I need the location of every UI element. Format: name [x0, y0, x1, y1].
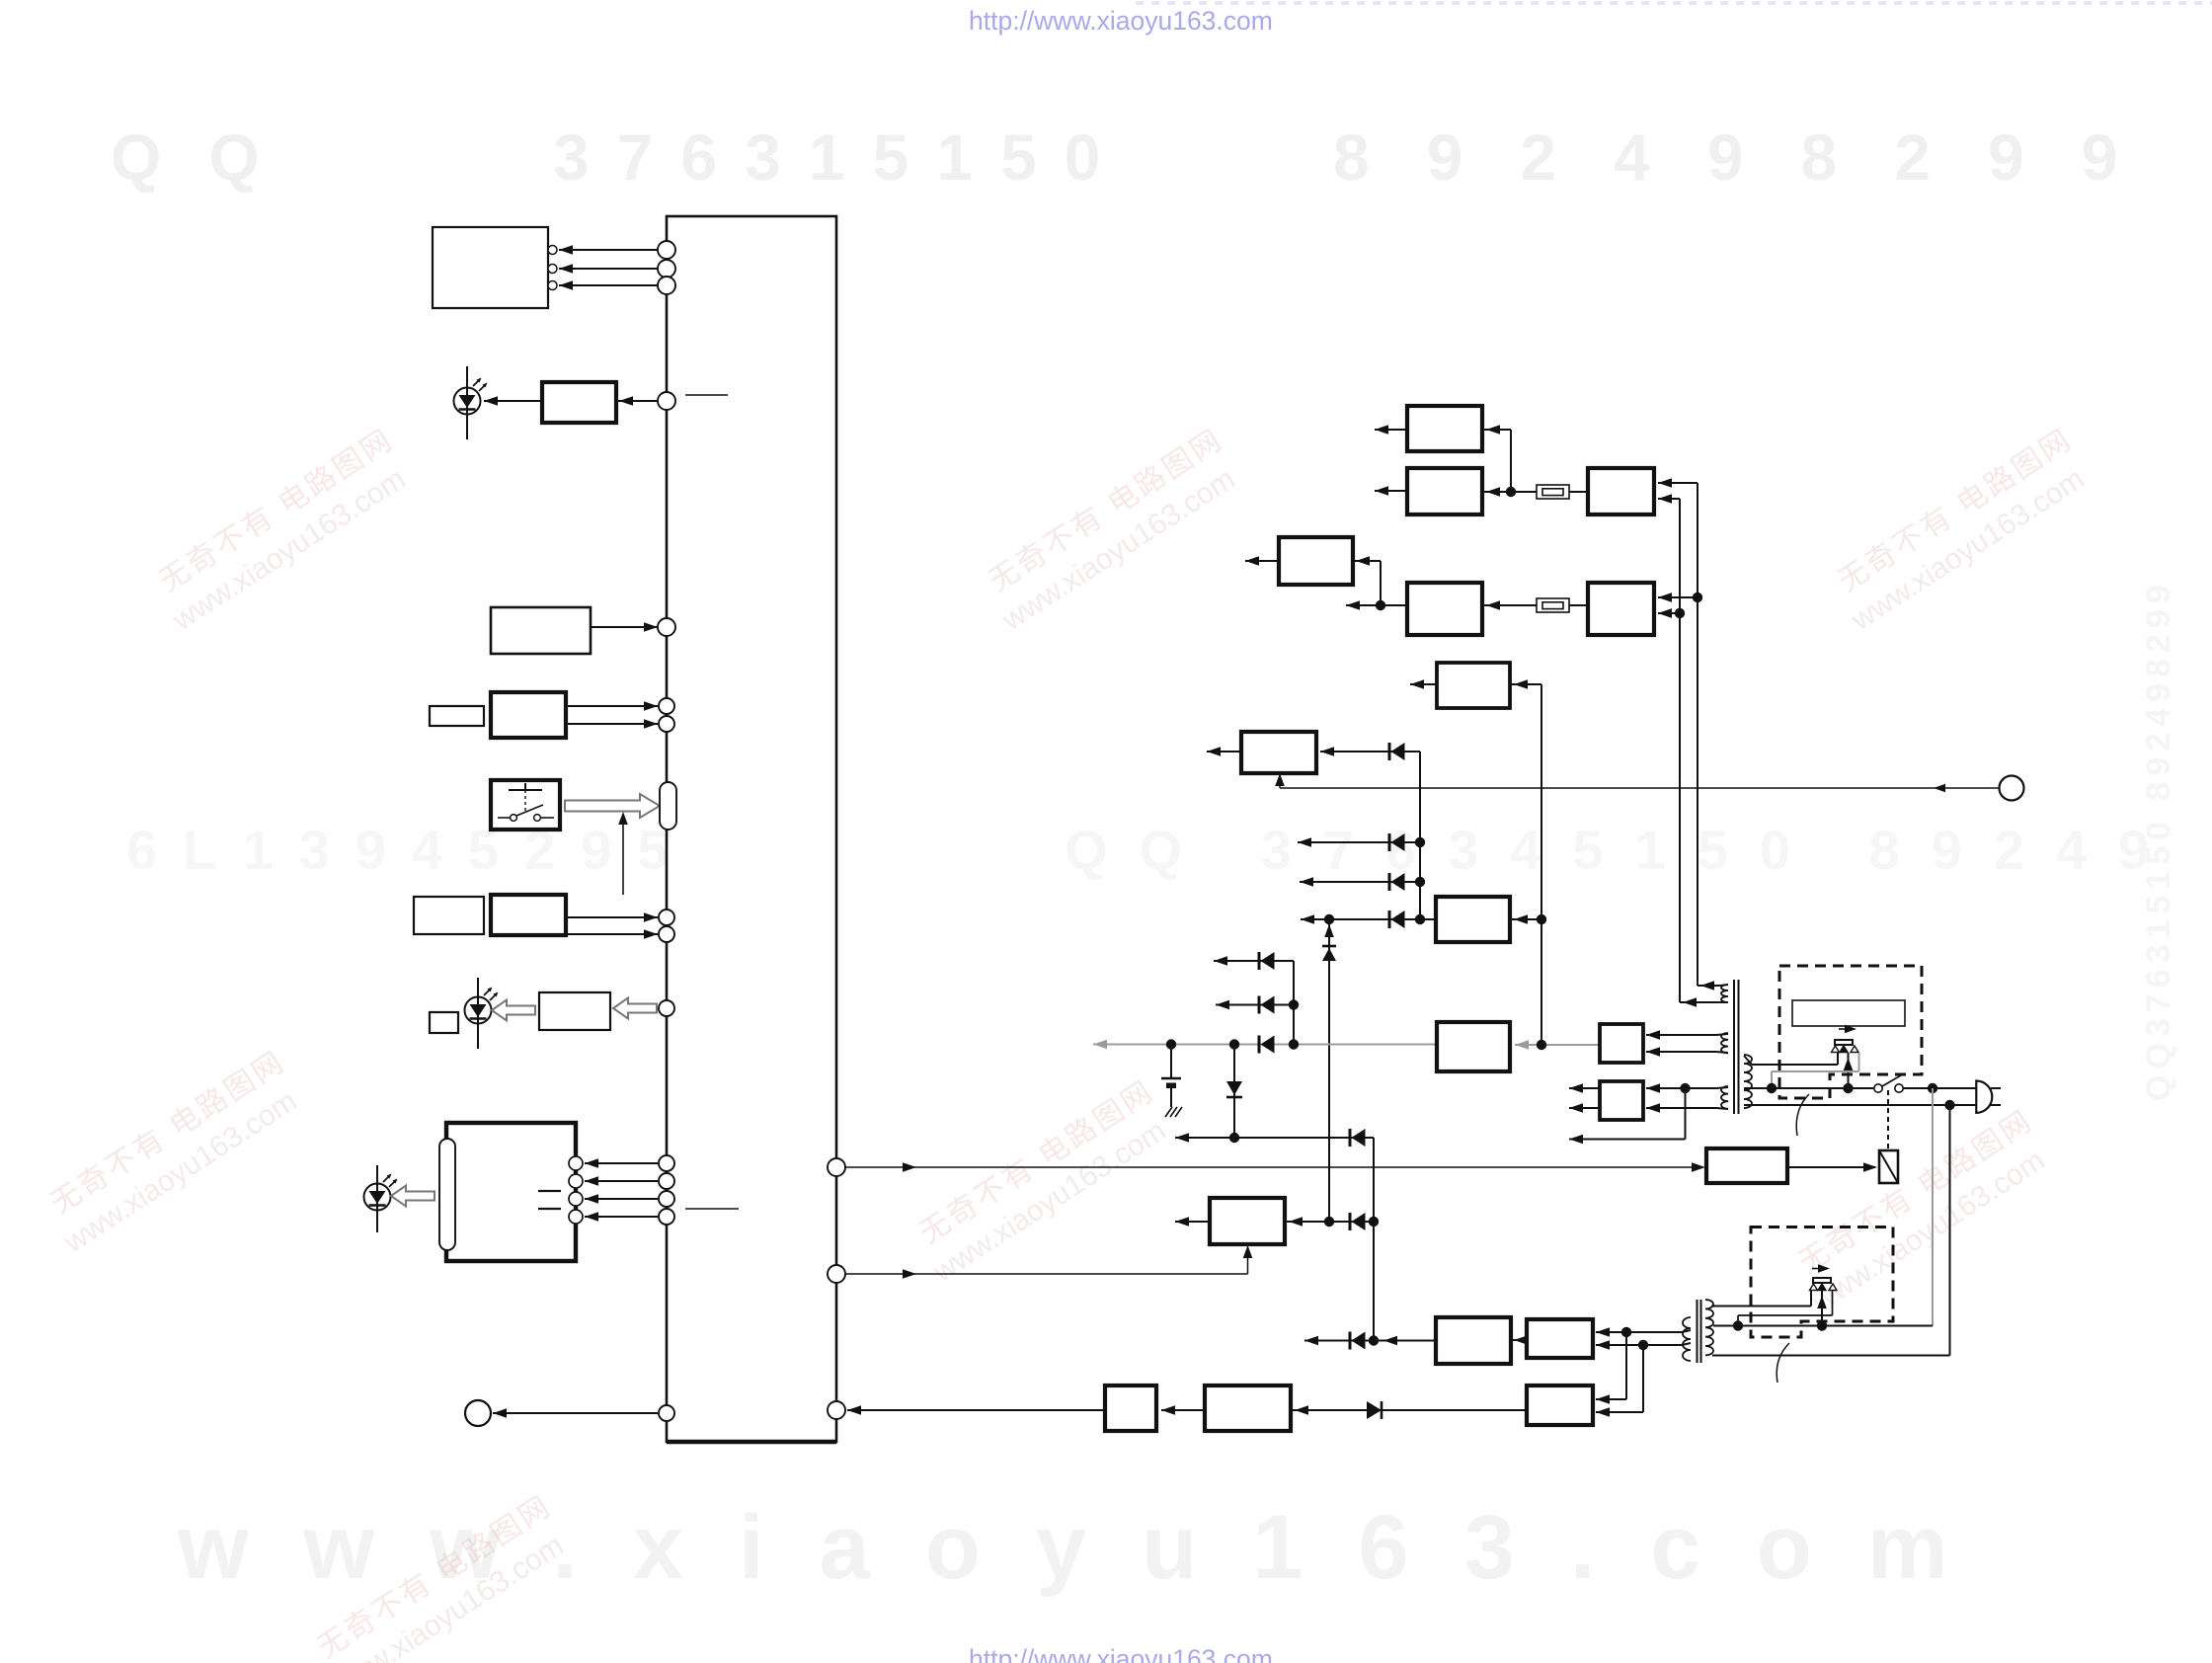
thermal protector C — [1810, 1278, 1838, 1291]
svg-text:892498299: 892498299 — [1333, 120, 2174, 194]
wire R18 to relay — [1787, 1166, 1875, 1168]
gray drop wire — [1932, 1088, 1934, 1326]
wire junction to R4 — [1381, 604, 1407, 606]
box F2 small — [414, 897, 484, 934]
IC right pin C circle — [828, 1401, 845, 1419]
wire B3 to B2 — [1161, 1409, 1205, 1411]
gray bus line — [1093, 1044, 1437, 1046]
power key switch box E — [491, 780, 560, 830]
regulator R4 — [1407, 583, 1482, 635]
wire IC to J1 — [493, 1412, 658, 1414]
wires IC to G — [585, 1162, 658, 1164]
capacitor C1 to ground — [1170, 1045, 1172, 1079]
regulator R19 — [1527, 1386, 1593, 1425]
feedback riser into R9 — [1279, 778, 1281, 788]
box F4 small — [430, 1012, 458, 1033]
AC plug P1 — [1976, 1081, 1992, 1113]
vertical wire V3 — [1540, 684, 1542, 1045]
driver box B1 — [542, 382, 616, 423]
protector A left leg — [1837, 1053, 1839, 1065]
LED D2 — [477, 978, 479, 1049]
regulator R14 — [1527, 1319, 1593, 1358]
rectifier R17 — [1600, 1081, 1643, 1120]
rectifier R3 — [1588, 468, 1654, 515]
diode D12 row — [1300, 881, 1420, 883]
AC line lower — [1747, 1104, 1976, 1106]
dashed unit A outline — [1779, 966, 1922, 1098]
small arrow above protector A — [1839, 1028, 1854, 1030]
LED D3 — [376, 1165, 378, 1232]
junction dot — [1376, 600, 1385, 610]
V1 to T1 coil A top — [1698, 985, 1720, 987]
svg-text:http://www.xiaoyu163.com: http://www.xiaoyu163.com — [969, 6, 1273, 36]
rectifier R6 — [1588, 583, 1654, 635]
regulator R5 — [1279, 537, 1353, 585]
curved annotation pointer A — [1796, 1094, 1809, 1136]
vertical rail V5 — [1328, 919, 1330, 1222]
watermark: faint gray spaced digits top row — [111, 120, 2174, 194]
hollow arrow to D3 — [391, 1186, 434, 1207]
diode D22 row — [1291, 1409, 1367, 1411]
wire junction to R2 — [1482, 491, 1511, 493]
display block G — [446, 1123, 576, 1261]
IC U1 system control main block — [667, 216, 836, 1442]
diode D15 row — [1214, 960, 1294, 962]
wires IC to CN1 — [559, 249, 658, 251]
diode D16 row — [1216, 1004, 1294, 1006]
IC right pin B circle — [828, 1265, 845, 1283]
wire corner to junction — [1510, 430, 1512, 492]
regulator R2 — [1407, 468, 1482, 515]
diode D20 row into R12 — [1285, 1221, 1374, 1223]
branch V3 to R16 — [1510, 918, 1541, 920]
svg-text:376315150: 376315150 — [553, 120, 1128, 194]
V3 junction dot at R16 row — [1537, 914, 1546, 924]
pin 4 tick — [685, 394, 728, 396]
wire C to IC — [591, 626, 658, 628]
relay driver R18 — [1706, 1148, 1787, 1183]
IC pins 1-3 circles — [658, 241, 675, 259]
IC pins 6-7 circles — [659, 698, 674, 714]
vertical rail V4 — [1419, 752, 1421, 919]
corner down to junction — [1380, 561, 1382, 605]
arrows into R3 right — [1658, 482, 1698, 484]
IC pin 4 circle — [658, 392, 675, 410]
diode D17 on gray bus — [1259, 1036, 1275, 1054]
protector C right leg — [1832, 1291, 1834, 1315]
connector CN1 top-left box — [433, 227, 548, 308]
watermark: faint top edge band — [1136, 1, 2212, 5]
V2 to T1 coil A bottom — [1680, 1001, 1720, 1003]
label box inside unit A — [1792, 1000, 1905, 1026]
diode D11 row — [1298, 841, 1420, 843]
IC pins 8-9 circles — [659, 910, 674, 925]
T1 coil C wires to R17 — [1646, 1087, 1716, 1089]
gray wire R15 to R11 — [1515, 1044, 1600, 1046]
far right connector circle — [2000, 776, 2024, 801]
wire into R5 — [1353, 560, 1381, 562]
IC pin 10 circle — [659, 1000, 674, 1016]
wire V3 to R7 — [1510, 683, 1541, 685]
small arrow above protector C — [1812, 1268, 1827, 1270]
wire bottom row into pin C — [847, 1409, 1105, 1411]
hollow arrow to D2 — [492, 1000, 535, 1021]
arrows into R6 right — [1658, 593, 1672, 602]
wires F to IC — [566, 916, 658, 918]
wire R13 to junction — [1374, 1340, 1436, 1342]
black drop wire — [1949, 1105, 1951, 1356]
diode D13 row to R16 — [1301, 918, 1436, 920]
vertical wire V2 — [1679, 499, 1681, 1002]
regulator R12 — [1210, 1198, 1285, 1244]
zener D14 up — [1322, 945, 1336, 948]
regulator R9 — [1241, 732, 1316, 773]
regulator R1 — [1407, 406, 1482, 451]
equal marks inside G — [538, 1190, 561, 1192]
curved annotation pointer C — [1777, 1343, 1789, 1383]
fuse F1 — [1537, 485, 1569, 499]
wire pin B to R12 bottom — [845, 1273, 1248, 1275]
T1 coil B — [1721, 1033, 1728, 1053]
IC pin 15 circle — [659, 1405, 674, 1421]
feedback arrow from box F top — [622, 822, 624, 895]
wires D to IC — [566, 705, 658, 707]
tick near pin 14 — [685, 1208, 739, 1210]
junction dot — [1506, 487, 1516, 497]
box B2 — [1105, 1386, 1156, 1431]
T1 coil A — [1721, 985, 1728, 1002]
protector A right leg gray — [1858, 1053, 1860, 1071]
diode D21 row — [1304, 1340, 1374, 1342]
fuse F2 — [1537, 598, 1569, 612]
regulator R13 — [1436, 1317, 1511, 1364]
regulator R16 — [1436, 897, 1510, 942]
pill on G left edge — [439, 1139, 455, 1250]
branch arrow left — [1346, 604, 1381, 606]
wire junction to fuse F1 — [1511, 491, 1537, 493]
ground — [1165, 1107, 1172, 1117]
R17 output arrows — [1569, 1087, 1600, 1089]
svg-text:QQ: QQ — [111, 120, 307, 194]
wire R19 to D22 — [1382, 1409, 1527, 1411]
wire F2 to R6 — [1569, 604, 1588, 606]
AC line upper — [1747, 1087, 1874, 1089]
wire R14 to R13 — [1511, 1339, 1527, 1341]
box B3 — [1205, 1386, 1291, 1431]
box F — [491, 895, 566, 935]
wire F2 to R4 — [1482, 604, 1537, 606]
CN1 pin circles — [548, 246, 557, 255]
R1 output arrow — [1375, 429, 1407, 431]
svg-text:QQ376315150 892498299: QQ376315150 892498299 — [2140, 579, 2177, 1101]
regulator R11 — [1437, 1022, 1510, 1071]
T1 primary coil — [1744, 1055, 1752, 1108]
T2 primary coil — [1705, 1300, 1713, 1355]
IC U1 thick bottom edge — [667, 1440, 836, 1445]
R12 output arrow — [1175, 1221, 1210, 1223]
drops to R19 — [1625, 1332, 1627, 1399]
box C sensor — [491, 607, 591, 654]
T1 coil C — [1721, 1086, 1728, 1109]
protector C left leg — [1810, 1291, 1812, 1307]
coil C branch down-left — [1685, 1088, 1687, 1140]
IC pins 11-14 circles — [659, 1155, 674, 1171]
wire F1 to R3 — [1569, 491, 1588, 493]
V1 junction dot — [1693, 593, 1702, 602]
protector A middle leg — [1848, 1053, 1850, 1088]
wire B1 to D1 — [484, 400, 542, 402]
T2 secondary wires to R14 — [1596, 1331, 1626, 1333]
svg-text:http://www.xiaoyu163.com: http://www.xiaoyu163.com — [969, 1644, 1273, 1663]
R2 output arrow — [1375, 490, 1407, 492]
vertical rail V7 — [1293, 961, 1295, 1045]
power switch S1 — [1874, 1084, 1882, 1092]
dashed unit C outline — [1751, 1227, 1893, 1338]
V2 junction dot — [1675, 608, 1685, 618]
key switch symbol — [524, 783, 526, 790]
relay RY1 — [1879, 1150, 1898, 1183]
watermark: diagonal stamps — [145, 423, 422, 637]
thin line to far connector — [1280, 787, 1999, 789]
diode D19 row — [1175, 1137, 1374, 1139]
dashed link switch to relay — [1887, 1090, 1889, 1150]
watermark: faint gray middle row — [126, 819, 2180, 881]
hollow arrow E to IC — [565, 794, 660, 818]
wire IC pin to B1 — [616, 400, 658, 402]
T1 coil B wires to R15 — [1646, 1034, 1716, 1036]
box D2 small — [430, 706, 484, 726]
box F3 — [539, 992, 610, 1030]
IC right pin A circle — [828, 1158, 845, 1176]
transformer T1 core — [1733, 980, 1735, 1114]
branch V1 to R6 — [1658, 596, 1698, 598]
vertical wire V1 — [1697, 483, 1698, 986]
transformer T2 core — [1697, 1300, 1698, 1363]
hollow arrow IC to F3 — [613, 998, 657, 1019]
long wire pin A to relay driver — [845, 1166, 1702, 1168]
box D — [491, 692, 566, 738]
R9 output arrow — [1207, 751, 1241, 752]
diode D18 down branch — [1233, 1045, 1235, 1139]
thermal protector A — [1832, 1040, 1859, 1053]
vertical rail V6 — [1373, 1138, 1375, 1341]
LED D1 — [466, 366, 468, 439]
wire into R1 — [1482, 429, 1511, 431]
rectifier R15 — [1600, 1024, 1643, 1063]
IC pill pin — [660, 782, 676, 830]
svg-text:QQ 376345150 89249: QQ 376345150 89249 — [1065, 819, 2180, 881]
T2 primary terminals — [1711, 1306, 1811, 1307]
IC pin 5 circle — [658, 618, 675, 636]
diode D10 row into R9 — [1320, 751, 1420, 752]
R7 output arrow — [1410, 683, 1437, 685]
R5 output arrow — [1245, 560, 1279, 562]
T2 secondary coil — [1683, 1317, 1691, 1361]
T1 primary terminals — [1744, 1056, 1752, 1065]
protector C middle leg — [1821, 1291, 1823, 1326]
small circles on G right edge — [569, 1156, 583, 1170]
regulator R7 — [1437, 663, 1510, 708]
branch V2 to R6 — [1658, 612, 1680, 614]
connector J1 bottom left — [465, 1400, 491, 1426]
